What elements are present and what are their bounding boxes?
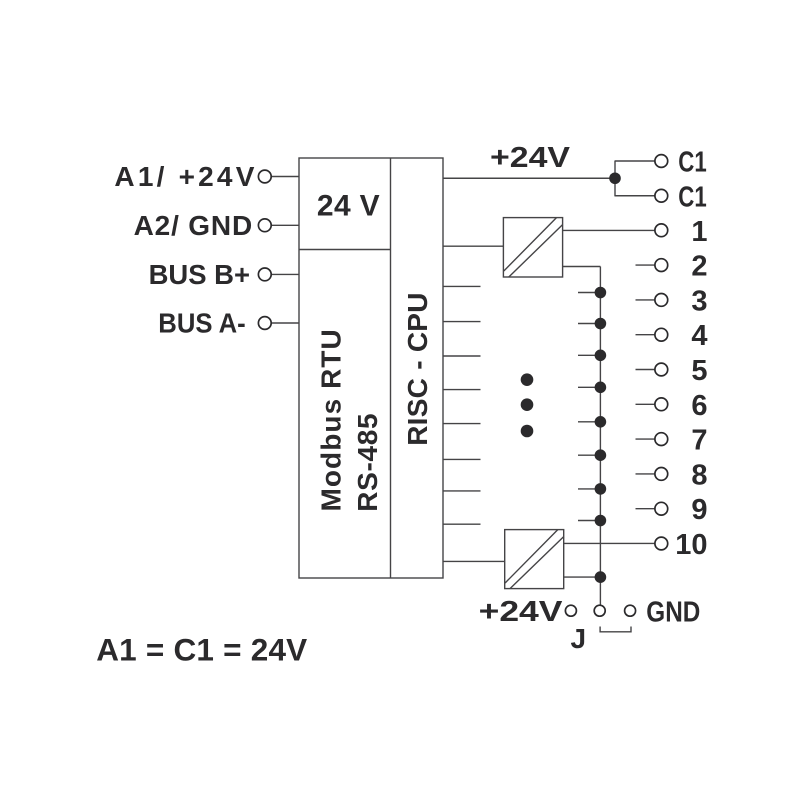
svg-text:24 V: 24 V xyxy=(317,189,380,222)
svg-text:RS-485: RS-485 xyxy=(352,413,383,511)
svg-text:Modbus RTU: Modbus RTU xyxy=(315,329,346,511)
svg-text:BUS B+: BUS B+ xyxy=(149,259,250,290)
svg-text:+24V: +24V xyxy=(479,596,564,628)
svg-text:5: 5 xyxy=(691,355,707,387)
svg-text:6: 6 xyxy=(691,390,707,422)
svg-text:1: 1 xyxy=(691,216,707,248)
svg-text:C1: C1 xyxy=(678,147,706,179)
svg-text:9: 9 xyxy=(691,494,707,526)
svg-text:GND: GND xyxy=(646,597,700,629)
svg-text:10: 10 xyxy=(675,529,707,561)
svg-text:A1 = C1 = 24V: A1 = C1 = 24V xyxy=(96,632,307,668)
svg-text:A2/ GND: A2/ GND xyxy=(134,210,253,241)
svg-text:3: 3 xyxy=(691,285,707,317)
svg-text:J: J xyxy=(571,623,587,654)
svg-text:+24V: +24V xyxy=(490,142,571,174)
svg-text:RISC - CPU: RISC - CPU xyxy=(402,293,433,446)
svg-text:2: 2 xyxy=(691,251,707,283)
svg-text:C1: C1 xyxy=(678,181,706,213)
svg-text:A1/ +24V: A1/ +24V xyxy=(114,161,254,192)
svg-text:4: 4 xyxy=(691,320,707,352)
svg-text:BUS A-: BUS A- xyxy=(158,308,245,339)
svg-text:7: 7 xyxy=(691,425,707,457)
svg-text:8: 8 xyxy=(691,459,707,491)
